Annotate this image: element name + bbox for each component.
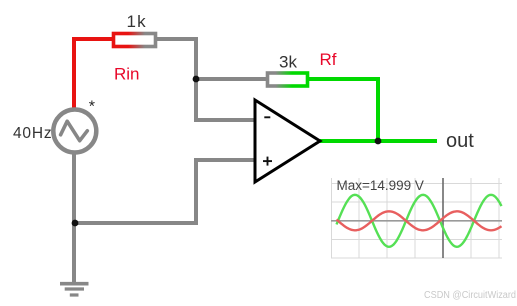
svg-text:40Hz: 40Hz xyxy=(13,125,52,142)
svg-text:CSDN @CircuitWizard: CSDN @CircuitWizard xyxy=(424,290,516,301)
svg-text:1k: 1k xyxy=(127,12,147,31)
svg-text:out: out xyxy=(446,130,474,152)
svg-text:Rf: Rf xyxy=(320,50,337,69)
svg-text:3k: 3k xyxy=(279,53,297,72)
svg-text:Rin: Rin xyxy=(114,65,140,84)
svg-text:*: * xyxy=(89,99,95,116)
svg-text:Max=14.999 V: Max=14.999 V xyxy=(337,178,424,193)
